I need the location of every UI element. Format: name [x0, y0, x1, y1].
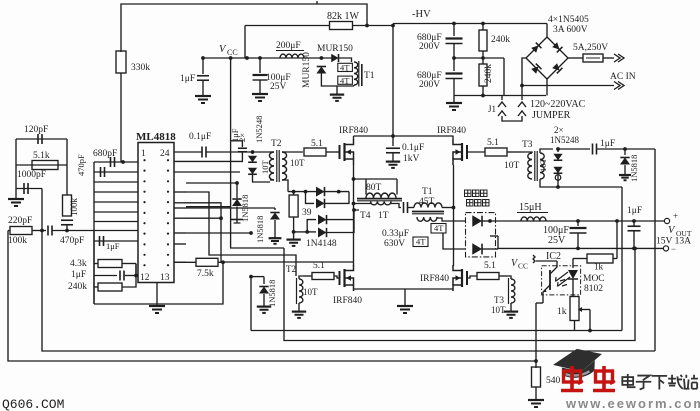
pot wiper — [582, 309, 590, 311]
wire T1 right to q2 source — [442, 207, 454, 209]
diode MUR150 vertical — [320, 56, 324, 60]
svg-text:25V: 25V — [270, 82, 287, 92]
LED of optocoupler — [572, 259, 574, 269]
wire — [294, 231, 308, 233]
wire busA left riser — [250, 277, 252, 331]
wire T2 sec top to gate resistor — [286, 151, 303, 153]
svg-text:240k: 240k — [68, 282, 87, 292]
resistor 1k pot — [570, 297, 579, 321]
capacitor 0.1uF 1kV — [392, 136, 394, 146]
svg-text:0.33μF: 0.33μF — [382, 229, 409, 239]
wire bottom row — [454, 95, 546, 97]
wire q3 gate — [334, 276, 340, 278]
ground — [510, 303, 512, 308]
svg-text:1N5248: 1N5248 — [254, 116, 264, 143]
wire pin stub — [174, 191, 186, 193]
wire VCC rail — [203, 57, 332, 59]
svg-text:1N5248: 1N5248 — [550, 135, 579, 145]
bridge rectifier 4x1N5405 — [546, 24, 548, 38]
ground — [293, 232, 295, 236]
svg-text:13: 13 — [160, 273, 170, 283]
svg-text:IRF840: IRF840 — [333, 296, 362, 306]
svg-text:IRF840: IRF840 — [420, 274, 449, 284]
svg-text:240k: 240k — [491, 35, 510, 45]
svg-text:12: 12 — [140, 273, 150, 283]
wire drive 5 — [186, 232, 251, 234]
node — [623, 147, 627, 151]
feedback bus A — [251, 330, 622, 332]
ground — [298, 303, 300, 308]
bridge diode — [552, 42, 563, 53]
ground mid — [404, 289, 406, 302]
svg-text:1k: 1k — [594, 262, 604, 272]
svg-text:V: V — [219, 44, 227, 55]
diode 1N4148 b — [306, 192, 315, 204]
capacitor 1uF vertical — [231, 141, 243, 147]
resistor 1k upper — [573, 258, 587, 260]
svg-text:1: 1 — [141, 149, 146, 159]
svg-text:8102: 8102 — [584, 284, 603, 294]
svg-text:CC: CC — [518, 262, 528, 271]
capacitor 1uF — [201, 56, 205, 60]
resistor 39 — [293, 192, 295, 195]
svg-text:4T: 4T — [434, 223, 444, 233]
diode 1N4148 d — [307, 231, 316, 233]
transistor IRF840 q4 — [466, 271, 468, 285]
node — [452, 22, 456, 26]
svg-text:CC: CC — [227, 48, 238, 57]
node — [219, 216, 223, 220]
svg-text:10T: 10T — [260, 160, 270, 175]
svg-text:ML4818: ML4818 — [136, 131, 176, 143]
wire q2 source down — [453, 165, 455, 266]
node VCC — [245, 56, 249, 60]
wire pin stub — [174, 261, 186, 263]
wire 1uF node down right — [654, 149, 656, 351]
wire pin stub — [94, 240, 138, 242]
svg-text:AC IN: AC IN — [610, 72, 636, 82]
svg-text:2×: 2× — [237, 133, 247, 142]
wire emitter down — [536, 302, 543, 304]
bridge diode — [552, 63, 563, 74]
svg-text:80T: 80T — [366, 183, 382, 193]
svg-text:10T: 10T — [491, 305, 506, 315]
ground aux — [336, 86, 338, 91]
svg-text:IRF840: IRF840 — [437, 126, 466, 136]
wire bridge bottom — [546, 79, 548, 96]
svg-text:680pF: 680pF — [93, 149, 117, 159]
transformer T1 secondary 4T 4T — [417, 217, 437, 221]
svg-text:10T: 10T — [290, 158, 305, 168]
svg-text:5.1: 5.1 — [487, 138, 499, 148]
svg-text:5A,250V: 5A,250V — [573, 43, 608, 53]
wire pin stub — [174, 217, 186, 219]
svg-text:5.1: 5.1 — [313, 261, 325, 271]
svg-text:www.eeworm.com: www.eeworm.com — [565, 396, 700, 411]
capacitor 1uF pin5 — [99, 236, 101, 246]
wire stub top — [316, 1, 318, 4]
label Schottky Chinese — [465, 190, 472, 197]
schottky box — [466, 213, 496, 257]
wire — [497, 236, 499, 249]
resistor 100k vertical — [66, 165, 68, 195]
svg-text:1kV: 1kV — [403, 154, 420, 164]
svg-text:470pF: 470pF — [60, 236, 84, 246]
svg-text:10T: 10T — [504, 161, 520, 171]
connector AC neutral — [614, 82, 620, 90]
capacitor 1uF post zener — [558, 148, 590, 150]
wire IC left bus — [93, 162, 95, 304]
wire — [120, 73, 122, 162]
node — [65, 229, 69, 233]
svg-text:4.3k: 4.3k — [70, 259, 87, 269]
capacitor 680uF 200V lower — [453, 58, 455, 71]
resistor 82k 1W — [330, 22, 353, 30]
wire pin stub — [94, 181, 138, 183]
wire T3 sec top — [540, 149, 553, 153]
diode 1N5818 second — [186, 207, 275, 209]
svg-text:220pF: 220pF — [8, 216, 32, 226]
capacitor 100uF 25V — [258, 56, 262, 60]
svg-text:MOC: MOC — [583, 274, 605, 284]
svg-text:T4: T4 — [360, 211, 371, 221]
capacitor 680uF 200V upper — [453, 24, 455, 37]
svg-text:1μF: 1μF — [627, 206, 642, 216]
wire q4 gate — [467, 276, 477, 278]
svg-text:470pF: 470pF — [76, 154, 86, 176]
wire pin stub — [174, 202, 186, 204]
node — [134, 274, 138, 278]
wire -HV drop — [392, 26, 394, 137]
wire — [354, 210, 359, 220]
svg-text:15μH: 15μH — [519, 202, 542, 213]
svg-text:1μF: 1μF — [600, 139, 615, 149]
diode 1N5818 first — [186, 182, 237, 184]
transformer T3 bottom — [511, 279, 515, 303]
svg-text:100k: 100k — [69, 198, 79, 217]
wire T3 sec bottom return — [540, 179, 622, 187]
ground — [15, 189, 17, 196]
node — [121, 160, 125, 164]
capacitor 0.33uF 630V — [391, 202, 401, 208]
wire pin stub — [94, 211, 138, 213]
svg-text:0.1μF: 0.1μF — [402, 143, 424, 153]
wire T2 sec bottom — [286, 180, 288, 192]
svg-text:25V: 25V — [548, 235, 566, 246]
wire bridge right to fuse — [568, 57, 583, 59]
svg-text:240k: 240k — [484, 64, 494, 83]
feedback bus C riser already drawn — [654, 148, 656, 150]
svg-text:1N5818: 1N5818 — [267, 280, 277, 307]
node — [249, 231, 253, 235]
svg-text:10T: 10T — [303, 287, 318, 297]
wire source rail — [354, 288, 454, 290]
node — [391, 24, 395, 28]
svg-text:200V: 200V — [419, 42, 440, 52]
svg-text:630V: 630V — [384, 239, 405, 249]
bridge diode — [531, 64, 542, 75]
svg-text:1N5818: 1N5818 — [255, 216, 265, 243]
svg-text:−: − — [671, 244, 676, 254]
wire pot bottom — [574, 321, 576, 331]
wire pin stub — [94, 201, 138, 203]
svg-text:1N4148: 1N4148 — [306, 239, 337, 249]
resistor 540 — [532, 367, 541, 387]
svg-text:24: 24 — [160, 149, 170, 159]
transformer T1 aux 4T windings — [354, 62, 358, 85]
wire output bottom — [498, 247, 663, 249]
svg-text:39: 39 — [302, 208, 312, 218]
diode 1N4148 a — [316, 187, 325, 197]
schottky diode bottom — [472, 243, 482, 254]
svg-text:T3: T3 — [522, 140, 533, 150]
connector AC line — [614, 54, 620, 62]
diode 1N4148 c — [307, 220, 316, 232]
wire — [41, 189, 43, 231]
capacitor 220pF — [47, 226, 49, 236]
wire secondary top — [437, 218, 466, 221]
svg-text:MUR150: MUR150 — [317, 44, 353, 54]
svg-text:200V: 200V — [419, 80, 440, 90]
diode 1N5818 output — [624, 149, 626, 155]
wire 82k row — [245, 25, 330, 27]
node — [365, 24, 369, 28]
wire left outer drop — [8, 231, 536, 362]
wire from vout to 1k — [616, 221, 618, 259]
svg-text:540: 540 — [546, 376, 561, 386]
wire drive 1 — [186, 192, 296, 276]
svg-text:2×: 2× — [554, 125, 564, 135]
wire pin stub row 172 — [174, 171, 240, 173]
wire — [135, 264, 137, 276]
wire output top — [490, 220, 664, 222]
wire pin stub — [174, 232, 186, 234]
svg-text:100k: 100k — [8, 236, 27, 246]
svg-text:-HV: -HV — [412, 9, 431, 20]
svg-text:T3: T3 — [494, 295, 504, 305]
wire mid row — [454, 57, 504, 59]
wire bridge left — [522, 58, 526, 86]
wire VCC drop — [244, 26, 246, 59]
wire — [321, 74, 354, 87]
svg-text:IRF840: IRF840 — [339, 126, 368, 136]
resistor 330k — [116, 51, 126, 73]
svg-text:T1: T1 — [422, 187, 433, 197]
svg-text:1μF: 1μF — [180, 74, 195, 84]
wire pin stub — [94, 161, 138, 163]
wire drive 2 — [186, 203, 354, 262]
capacitor below 100k — [61, 219, 73, 221]
wire q2 gate — [467, 151, 485, 153]
watermark chinese site name — [622, 374, 635, 387]
watermark red bugs — [561, 366, 583, 391]
svg-text:120~220VAC: 120~220VAC — [530, 99, 586, 110]
svg-text:5.1: 5.1 — [484, 261, 496, 271]
winding bracket T1 — [361, 64, 363, 86]
wire pin stub — [94, 221, 138, 223]
svg-text:1N5818: 1N5818 — [629, 155, 639, 182]
svg-text:1T: 1T — [378, 211, 389, 221]
wire drive 3 — [186, 206, 231, 208]
node — [221, 260, 225, 264]
wire IC bottom box — [94, 263, 223, 304]
svg-text:T2: T2 — [286, 264, 296, 274]
svg-text:1μF: 1μF — [106, 241, 120, 251]
wire pin stub — [94, 191, 138, 193]
node — [576, 219, 580, 223]
svg-text:1μF: 1μF — [71, 270, 86, 280]
terminal Vout plus — [664, 218, 669, 223]
wire J1 drop — [503, 58, 505, 96]
wire secondary bottom — [443, 233, 466, 249]
phototransistor — [549, 270, 551, 290]
wire q1 source down — [353, 165, 355, 179]
transistor IRF840 q3 — [339, 271, 341, 285]
wire vcc to collector — [536, 260, 557, 262]
resistor 240k upper — [482, 24, 484, 31]
svg-text:7.5k: 7.5k — [197, 269, 214, 279]
watermark cap logo — [551, 345, 605, 381]
wire VCC drop long — [231, 58, 284, 248]
schottky diode top — [472, 215, 482, 226]
wire pin stub — [94, 171, 138, 173]
svg-text:4T: 4T — [340, 75, 350, 85]
svg-text:330k: 330k — [131, 63, 150, 73]
svg-text:4×1N5405: 4×1N5405 — [548, 15, 589, 25]
node — [391, 134, 395, 138]
wire pin stub — [174, 243, 186, 245]
wire pin stub — [174, 207, 186, 209]
wire drive 4 — [186, 217, 221, 219]
svg-text:200μF: 200μF — [276, 41, 301, 51]
svg-text:3A 600V: 3A 600V — [553, 25, 588, 35]
svg-text:+: + — [673, 211, 678, 221]
wire q1 source to q3 drain — [353, 179, 355, 266]
fuse 5A 250V — [583, 54, 603, 62]
resistor 7.5k — [174, 261, 196, 263]
wire AC neutral — [522, 85, 614, 87]
wire — [121, 4, 367, 52]
diode 1N5818 third — [251, 276, 264, 278]
wire drain rail — [354, 135, 454, 137]
node — [520, 84, 524, 88]
node — [534, 359, 538, 363]
svg-text:4T: 4T — [416, 237, 426, 247]
svg-text:J1: J1 — [488, 104, 496, 114]
svg-text:10T: 10T — [538, 158, 548, 173]
svg-text:MUR150: MUR150 — [302, 52, 312, 88]
svg-text:V: V — [668, 225, 676, 236]
ground — [453, 96, 455, 100]
svg-text:1000pF: 1000pF — [17, 170, 46, 180]
svg-text:4T: 4T — [340, 63, 350, 73]
wire T3 primary top — [521, 152, 532, 153]
svg-text:120pF: 120pF — [24, 125, 48, 135]
svg-text:JUMPER: JUMPER — [532, 110, 571, 121]
LED arrows — [556, 272, 569, 282]
bridge diode — [531, 43, 542, 54]
capacitor 100uF 25V output — [577, 221, 579, 226]
wire second left drop — [42, 231, 655, 352]
svg-text:T1: T1 — [364, 71, 375, 81]
resistor 240k lower — [482, 58, 484, 64]
svg-text:1k: 1k — [557, 307, 567, 317]
svg-text:5.1k: 5.1k — [33, 151, 50, 161]
terminal Vout minus — [663, 246, 668, 251]
wire — [288, 191, 349, 193]
svg-text:0.1μF: 0.1μF — [189, 132, 211, 142]
ground 540 — [535, 387, 537, 396]
wire busA right riser — [621, 187, 623, 331]
svg-text:Q606.COM: Q606.COM — [2, 397, 64, 411]
wire — [354, 202, 371, 204]
wire pin stub — [94, 230, 138, 232]
node — [249, 275, 253, 279]
svg-text:82k 1W: 82k 1W — [327, 11, 360, 22]
wire -HV rail — [393, 23, 547, 25]
feedback bus B — [284, 248, 635, 341]
svg-text:T2: T2 — [271, 139, 282, 149]
IC pin dots — [143, 159, 145, 161]
ground IC — [156, 283, 158, 303]
